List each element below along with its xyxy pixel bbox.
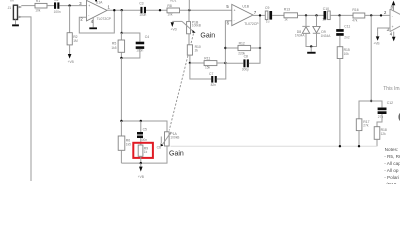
node (C3/R8) xyxy=(159,9,161,11)
wire R10 bottom to node C xyxy=(189,55,191,63)
wire C8 right up to node E / output xyxy=(249,15,260,63)
resistor R5 xyxy=(111,40,124,52)
svg-text:R13: R13 xyxy=(284,8,290,12)
node (R12 left) xyxy=(224,47,226,49)
svg-text:C11: C11 xyxy=(344,25,350,29)
wire down to R6 xyxy=(120,121,122,136)
svg-text:1N34A: 1N34A xyxy=(321,34,332,38)
svg-text:TL072CP: TL072CP xyxy=(97,17,112,21)
highlight box (red selection) xyxy=(133,143,153,158)
wire node F right to C12 xyxy=(371,101,382,107)
wire R1 to C2 xyxy=(47,5,54,7)
svg-text:+VB: +VB xyxy=(138,175,144,179)
svg-text:-: - xyxy=(234,19,235,23)
wire ground bus (light) xyxy=(171,145,378,147)
node (R15/bus) xyxy=(339,145,341,147)
ground (below J1) xyxy=(12,20,19,27)
svg-text:1k: 1k xyxy=(284,18,288,22)
wire U1A output xyxy=(107,9,140,11)
wire R11 to node D xyxy=(217,62,226,64)
svg-text:- Polari: - Polari xyxy=(384,175,399,180)
diode D8 xyxy=(295,15,310,37)
node (bus2) xyxy=(140,162,142,164)
capacitor C8 xyxy=(242,54,249,71)
node (junction C2/R2) xyxy=(68,4,70,6)
resistor R12 xyxy=(238,41,251,55)
svg-text:27n: 27n xyxy=(378,115,384,119)
wire C3 to R8 xyxy=(146,9,167,11)
wire C2 to U1A pin3 xyxy=(59,5,86,7)
capacitor C4 xyxy=(136,35,150,53)
svg-text:- All cap: - All cap xyxy=(384,161,400,166)
svg-text:1k: 1k xyxy=(144,150,148,154)
svg-text:VD1: VD1 xyxy=(170,0,177,3)
svg-text:U1B: U1B xyxy=(242,5,249,9)
svg-text:C7: C7 xyxy=(209,72,213,76)
connector J1 xyxy=(8,0,22,20)
svg-text:C8: C8 xyxy=(244,54,248,58)
wire U1A pin2 feedback loop xyxy=(79,10,114,33)
svg-text:12k: 12k xyxy=(381,132,387,136)
resistor R17 xyxy=(356,119,369,131)
power pin4 arrow down xyxy=(392,32,396,42)
potentiometer P1A xyxy=(161,132,180,146)
wire node C to R11 xyxy=(190,62,204,64)
svg-text:C6: C6 xyxy=(157,145,161,149)
wire R12 right to node E xyxy=(251,47,260,49)
svg-text:R16: R16 xyxy=(352,8,358,12)
svg-text:2k: 2k xyxy=(195,49,199,53)
svg-text:1M: 1M xyxy=(73,39,78,43)
wire long vertical to tone network xyxy=(370,15,372,101)
resistor R15 xyxy=(337,47,350,59)
wire R8 to U1B pin5 xyxy=(180,9,232,11)
resistor R18 xyxy=(374,127,387,140)
capacitor C9 (polarized) xyxy=(265,6,272,23)
wire gain2 ground bus xyxy=(121,146,167,163)
wire node C down to C7 xyxy=(190,63,211,79)
svg-text:10k: 10k xyxy=(167,12,173,16)
capacitor C11 xyxy=(336,25,350,40)
node (tone tap) xyxy=(370,14,372,16)
svg-text:R1: R1 xyxy=(36,0,40,3)
svg-text:C3: C3 xyxy=(139,2,143,6)
svg-text:C2: C2 xyxy=(54,0,58,2)
dashed gang link P1B-P1A xyxy=(169,34,193,131)
wire J1 lower pin right then long vertical down xyxy=(21,17,31,181)
svg-text:Notes:: Notes: xyxy=(385,147,399,152)
resistor R16 xyxy=(352,8,365,22)
resistor R10 xyxy=(187,45,201,55)
svg-text:+VB: +VB xyxy=(68,60,74,64)
wire C7 right to node D xyxy=(217,63,226,79)
wire gain2 row to P1A xyxy=(121,121,167,132)
op-amp U2A xyxy=(384,4,400,36)
svg-text:C10: C10 xyxy=(323,7,329,11)
potentiometer P1B xyxy=(182,20,201,33)
wire C12 down to R18 xyxy=(377,114,382,127)
wire C5 to R9 xyxy=(140,138,142,145)
node A xyxy=(121,32,123,34)
wire J1 top pin to R1 xyxy=(21,5,35,7)
svg-text:10k: 10k xyxy=(35,8,41,12)
notes block xyxy=(384,147,400,187)
node F xyxy=(370,100,372,102)
wire wiper stub / capacitor C6 xyxy=(157,137,162,150)
resistor R6 xyxy=(118,136,131,150)
svg-text:This Ima: This Ima xyxy=(383,86,400,92)
resistor R13 xyxy=(284,8,298,22)
svg-text:C9: C9 xyxy=(265,6,269,10)
svg-text:IN: IN xyxy=(10,0,14,2)
node (R8/P1B) xyxy=(188,9,190,11)
svg-text:300p: 300p xyxy=(242,68,249,72)
wire diodes to ground xyxy=(306,33,317,46)
cut text glyph at right edge xyxy=(398,113,400,122)
node (D9) xyxy=(315,14,317,16)
svg-text:1u: 1u xyxy=(322,17,326,21)
svg-text:2n2: 2n2 xyxy=(344,36,350,40)
wire R9 down to bus2 xyxy=(140,156,142,163)
svg-text:47k: 47k xyxy=(352,19,358,23)
wire C9 to R13 xyxy=(272,14,284,16)
resistor R8 xyxy=(167,4,180,17)
svg-text:27k: 27k xyxy=(363,123,369,127)
wire node A to C4 top xyxy=(122,33,140,42)
svg-text:R8: R8 xyxy=(167,4,171,8)
capacitor C2 xyxy=(54,0,61,14)
wire net up from node xyxy=(188,0,190,10)
node D xyxy=(224,62,226,64)
wire node D up to pin6 / R12 xyxy=(225,21,231,63)
svg-text:TL072CP: TL072CP xyxy=(244,22,259,26)
node C xyxy=(189,62,191,64)
op-amp U1B xyxy=(226,4,259,26)
wire node F left down to R17 xyxy=(359,101,371,119)
node (output/feedback) xyxy=(113,9,115,11)
node (C11 tap) xyxy=(338,14,340,16)
svg-text:J1: J1 xyxy=(8,6,12,10)
node (R17/bus) xyxy=(358,145,360,147)
wire R17 down to bus xyxy=(358,131,360,147)
wire node B down to gain2 row xyxy=(120,58,122,121)
power +VB (below R2) xyxy=(68,45,74,64)
svg-text:+: + xyxy=(392,25,394,29)
op-amp U1A xyxy=(79,0,111,24)
svg-text:- R5, R6: - R5, R6 xyxy=(384,154,400,159)
svg-text:+VD: +VD xyxy=(171,28,178,32)
svg-text:C5: C5 xyxy=(143,127,147,131)
svg-text:-: - xyxy=(392,14,393,18)
node (D8) xyxy=(305,14,307,16)
wire C10 to R16 xyxy=(330,14,353,16)
capacitor C5 xyxy=(137,127,147,142)
svg-text:- All op: - All op xyxy=(384,168,399,173)
wire node A to R5 xyxy=(120,33,122,40)
wire C8 left to node D xyxy=(225,62,243,64)
svg-text:15k: 15k xyxy=(205,66,211,70)
wire R16 to U2A pin2 xyxy=(365,14,390,16)
power +VD (wiper P1B) xyxy=(171,21,182,31)
svg-text:100n: 100n xyxy=(54,10,61,14)
capacitor C10 (polarized) xyxy=(322,7,330,21)
wire to R12 xyxy=(225,47,238,49)
svg-text:1u: 1u xyxy=(266,19,270,23)
svg-text:+VB: +VB xyxy=(373,42,379,46)
wire R18 down to bus corner xyxy=(376,139,378,146)
svg-text:R12: R12 xyxy=(239,41,245,45)
svg-text:Gain: Gain xyxy=(200,33,215,40)
resistor R9 xyxy=(138,145,148,156)
svg-text:100kB: 100kB xyxy=(192,24,201,28)
node (C5 top) xyxy=(140,120,142,122)
diode D9 xyxy=(313,15,331,37)
svg-text:10k: 10k xyxy=(344,52,350,56)
resistor R2 xyxy=(67,33,78,45)
resistor R1 xyxy=(35,0,47,12)
wire P1B top to node xyxy=(188,10,190,21)
wire C11 to R15 xyxy=(339,36,341,47)
wire R13 to C10 xyxy=(298,14,324,16)
ground (diodes) xyxy=(307,47,315,54)
wire P1B bottom to R10 xyxy=(188,34,190,45)
svg-text:100kB: 100kB xyxy=(170,135,179,139)
node (R6 top) xyxy=(120,120,122,122)
svg-text:+: + xyxy=(88,4,90,8)
capacitor C3 xyxy=(139,2,146,18)
wire U2A pin3 to +VB xyxy=(378,28,390,32)
capacitor C7 xyxy=(209,72,217,87)
svg-text:-: - xyxy=(88,13,89,17)
wire down to R5/C4 node xyxy=(121,10,123,33)
svg-text:100n: 100n xyxy=(139,13,146,17)
wire node down to C11 xyxy=(339,15,341,29)
svg-text:R11: R11 xyxy=(204,57,210,61)
power pin8 arrow up xyxy=(392,1,396,11)
power +VB (pin3) xyxy=(373,32,379,46)
svg-text:(R10: (R10 xyxy=(386,182,397,184)
node (diode gnd) xyxy=(310,45,312,47)
svg-text:82n: 82n xyxy=(211,83,217,87)
svg-text:1N34A: 1N34A xyxy=(295,34,306,38)
wire U1B output xyxy=(253,14,266,16)
svg-text:Gain: Gain xyxy=(169,150,184,157)
wire R6 down to bus2 xyxy=(120,150,122,163)
svg-text:C12: C12 xyxy=(387,101,393,105)
wire R15 down to bus xyxy=(339,59,341,147)
node E xyxy=(259,47,261,49)
capacitor C12 xyxy=(378,101,394,119)
wire C5 branch down xyxy=(140,121,142,132)
power +VB (gain2) xyxy=(138,163,144,179)
node B xyxy=(120,57,122,59)
wire C4 bottom to node B xyxy=(121,49,139,58)
node (output U1B) xyxy=(259,14,261,16)
svg-text:1k5: 1k5 xyxy=(126,142,131,146)
node (output/R5 branch) xyxy=(121,9,123,11)
wire R5 bottom to node B xyxy=(120,52,122,58)
node (op-in) xyxy=(380,14,382,16)
ground (U1A pin 4) xyxy=(89,18,97,29)
wire down to R2 xyxy=(69,6,71,33)
resistor R11 xyxy=(204,57,217,70)
svg-text:1k5: 1k5 xyxy=(111,46,116,50)
svg-text:C4: C4 xyxy=(145,35,149,39)
svg-text:+: + xyxy=(234,8,236,12)
